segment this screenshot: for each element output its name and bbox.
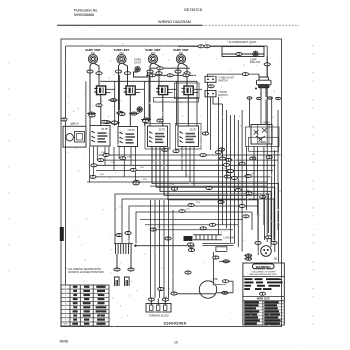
wire: unit 3 left lead drop: [149, 73, 151, 126]
wire: switch drops to bus: [89, 147, 91, 182]
switch 3 harness outline: [145, 124, 170, 150]
scan speckle (decorative): [64, 40, 281, 325]
wire: motor top feed: [213, 252, 215, 285]
motor connectors: [222, 280, 228, 283]
connectors between limiters and switches: [96, 104, 102, 107]
svg-text:DOOR IN LOCKED POSITION: DOOR IN LOCKED POSITION: [68, 270, 104, 274]
svg-text:GE7357CD: GE7357CD: [184, 8, 203, 12]
svg-text:GND: GND: [63, 324, 68, 326]
pot limiter 3: [156, 86, 168, 95]
warning box: [243, 263, 284, 325]
wire: limiter 4 drop: [187, 94, 189, 126]
svg-text:WIRING DIAGRAM: WIRING DIAGRAM: [158, 20, 191, 24]
svg-text:16E: 16E: [100, 174, 104, 176]
wire loops to broil element: [115, 194, 269, 244]
warning oval: [259, 292, 265, 295]
pot limiter 1: [94, 86, 106, 95]
wire: limiter 3 drop: [162, 94, 164, 126]
svg-text:LATCH: LATCH: [71, 122, 79, 125]
svg-text:316002069: 316002069: [164, 320, 187, 325]
door lock switch assembly: [193, 234, 222, 236]
wire: feed into motor: [177, 293, 216, 295]
surface switch 3: [148, 126, 168, 147]
wire: pass-through verticals: [85, 81, 87, 126]
wire: left L1 bus vertical: [65, 46, 67, 285]
table cell entries: [63, 286, 106, 326]
wire: unit 2 left lead drop: [118, 73, 120, 126]
terminal block connectors: [148, 298, 154, 301]
wire: right feeder group: [271, 97, 273, 242]
wire harness: horizontal bus lines: [99, 154, 281, 156]
svg-text:25F: 25F: [143, 179, 147, 181]
svg-text:LIGHT: LIGHT: [134, 62, 142, 65]
broil element coil: [116, 244, 132, 255]
surface unit element 4: [176, 54, 185, 63]
svg-text:25M: 25M: [266, 194, 270, 196]
surface switch 2: [118, 127, 138, 147]
wire: limiter 2 output right: [135, 88, 144, 90]
binder mark: [60, 227, 64, 241]
surface unit 2 leads: [119, 64, 121, 70]
WARNING header: [253, 264, 275, 269]
wire: console feed bus: [100, 80, 197, 82]
wire: ballast drops: [260, 88, 262, 97]
connector inside fluorescent box: [236, 53, 242, 56]
console panel top line / L1 supply wire: [66, 45, 267, 47]
wire: limiter 3 output right: [167, 88, 176, 90]
wire: unit 1 left lead drop: [89, 73, 91, 126]
ballast lead dot: [255, 88, 257, 90]
wire: fluorescent to ballast: [266, 57, 268, 78]
svg-text:DISCONNECT POWER: DISCONNECT POWER: [252, 271, 276, 273]
connectors on bus lines: [103, 154, 109, 157]
svg-text:TERMINAL BLOCK: TERMINAL BLOCK: [149, 315, 169, 318]
diagram outer border frame: [61, 39, 282, 327]
connectors near lock: [209, 223, 215, 226]
ground symbol: [137, 107, 142, 112]
svg-text:25D: 25D: [140, 167, 144, 169]
connector pair under unit 4: [175, 70, 181, 73]
oven motor: [199, 281, 216, 298]
warning text block: [244, 278, 252, 280]
wire: limiter 1 output right: [105, 88, 114, 90]
short link wires: [87, 113, 96, 115]
svg-text:8: 8: [65, 316, 67, 318]
svg-text:2: 2: [65, 291, 67, 293]
terminal block: [146, 304, 171, 313]
svg-text:25P: 25P: [251, 174, 255, 176]
svg-text:25J: 25J: [91, 51, 96, 55]
svg-text:25.7E: 25.7E: [190, 129, 197, 132]
svg-text:9: 9: [65, 320, 67, 322]
oven light switch: [205, 76, 216, 82]
wire: through thermostat: [257, 125, 259, 145]
svg-text:3: 3: [65, 295, 67, 297]
wire: limiter 1 drop: [100, 94, 102, 126]
svg-text:12G: 12G: [170, 184, 174, 186]
thermostat harness outlines: [246, 127, 280, 147]
svg-text:25H: 25H: [196, 202, 200, 204]
svg-text:14C: 14C: [111, 162, 115, 164]
wire: unit3-unit4 link: [150, 67, 190, 69]
connectors near lock motor: [265, 236, 271, 239]
lock contacts dark: [184, 236, 193, 241]
wire from oven light: [134, 72, 148, 77]
broil terminal connectors: [114, 268, 120, 271]
svg-text:25.7D: 25.7D: [159, 129, 166, 132]
connector pair under unit 1: [87, 70, 93, 73]
svg-text:25J: 25J: [151, 51, 156, 55]
svg-text:WARNING: WARNING: [256, 265, 272, 269]
svg-text:14J: 14J: [186, 209, 190, 211]
ballast transformer: [257, 77, 272, 88]
light switch contacts: [247, 97, 252, 99]
header rule: [57, 24, 202, 26]
svg-text:25J: 25J: [119, 51, 124, 55]
pot limiter 2: [124, 86, 136, 95]
extra long bus returns: [65, 182, 67, 184]
harness outline around limiters: [175, 83, 200, 99]
wire: center drops to terminal block: [150, 200, 152, 298]
wire harness: nested routing loops: [152, 147, 279, 262]
wire: limiter 4 output right: [193, 88, 202, 90]
svg-text:25L: 25L: [274, 258, 279, 261]
surface switch 4: [178, 126, 199, 147]
wire: unit 2 right lead drop: [127, 75, 129, 86]
connector: [264, 63, 270, 66]
svg-text:WIRE SIZE: WIRE SIZE: [257, 298, 270, 301]
wire: unit 3 right lead drop: [158, 75, 160, 86]
door lock motor: [261, 246, 272, 257]
wire to fluorescent light: [178, 45, 222, 47]
svg-text:09/98: 09/98: [60, 340, 69, 344]
svg-text:25J: 25J: [179, 51, 184, 55]
wire: unit 1 right lead drop: [98, 75, 100, 86]
surface unit 4 leads: [178, 64, 180, 70]
surface unit 3 leads: [150, 64, 152, 70]
margin dots (decorative scan artifacts): [8, 45, 314, 325]
door light switch: [205, 91, 216, 97]
lamp ballast indicator: [253, 51, 258, 56]
wire: unit 4 right lead drop: [186, 75, 188, 86]
bake element prongs: [115, 277, 120, 286]
connector on left bus: [61, 118, 67, 121]
lock rect: [216, 247, 227, 252]
svg-text:25F: 25F: [214, 277, 219, 281]
wire: broil coil link: [137, 245, 187, 247]
wire: door switch drop: [210, 97, 212, 150]
connector on center drop: [158, 288, 164, 291]
surface unit element 1: [88, 54, 97, 63]
svg-text:1: 1: [65, 287, 67, 289]
svg-text:SWITCH: SWITCH: [218, 94, 228, 97]
surface unit element 2: [117, 54, 126, 63]
wire color code table: [61, 285, 109, 326]
svg-text:25.7B: 25.7B: [101, 128, 108, 131]
switch 4 harness outline: [176, 124, 202, 150]
svg-text:* FLUORESCENT LIGHT: * FLUORESCENT LIGHT: [227, 40, 257, 44]
svg-text:THERM: THERM: [258, 142, 266, 144]
surface switch 1: [90, 126, 110, 147]
svg-text:6: 6: [65, 307, 67, 309]
surface unit element 3: [148, 54, 157, 63]
pot limiter 4: [182, 86, 194, 95]
svg-text:25.7C: 25.7C: [129, 129, 136, 132]
wire: mid feeder group: [218, 97, 220, 235]
svg-text:SWITCH: SWITCH: [218, 79, 228, 82]
connector pair under unit 2: [115, 70, 121, 73]
svg-text:25A: 25A: [101, 151, 105, 154]
svg-text:BALLAST: BALLAST: [250, 61, 261, 64]
wire size table: [262, 301, 264, 325]
svg-text:LOCK SW: LOCK SW: [224, 237, 235, 239]
wire: feed drop to switch 4: [196, 81, 198, 126]
connectors above switches: [89, 114, 95, 117]
wire: limiter 2 drop: [129, 94, 131, 126]
wire: thermostat feeders: [249, 99, 251, 127]
connectors in routing area: [171, 187, 177, 190]
connector on fluorescent feed: [198, 45, 204, 48]
svg-text:7: 7: [65, 311, 67, 313]
svg-text:10: 10: [174, 341, 178, 345]
connector between switches: [208, 85, 214, 88]
lock bar 2: [202, 243, 233, 245]
wire: broil feeds: [116, 254, 118, 268]
svg-text:4: 4: [65, 299, 67, 301]
svg-text:10B: 10B: [127, 157, 131, 159]
connector pair under unit 3: [147, 70, 153, 73]
wire: ballast left feed from oven light switch: [208, 74, 260, 77]
wire: unit 4 left lead drop: [177, 73, 179, 126]
svg-text:14N: 14N: [223, 168, 227, 170]
svg-text:5995268888: 5995268888: [74, 13, 94, 17]
surface unit 1 leads: [90, 64, 92, 70]
connectors on mid feeders: [215, 151, 221, 154]
svg-text:BEFORE SERVICING UNIT: BEFORE SERVICING UNIT: [250, 274, 278, 276]
wire: motor feed: [217, 292, 233, 294]
wire: right console vertical: [266, 46, 268, 242]
